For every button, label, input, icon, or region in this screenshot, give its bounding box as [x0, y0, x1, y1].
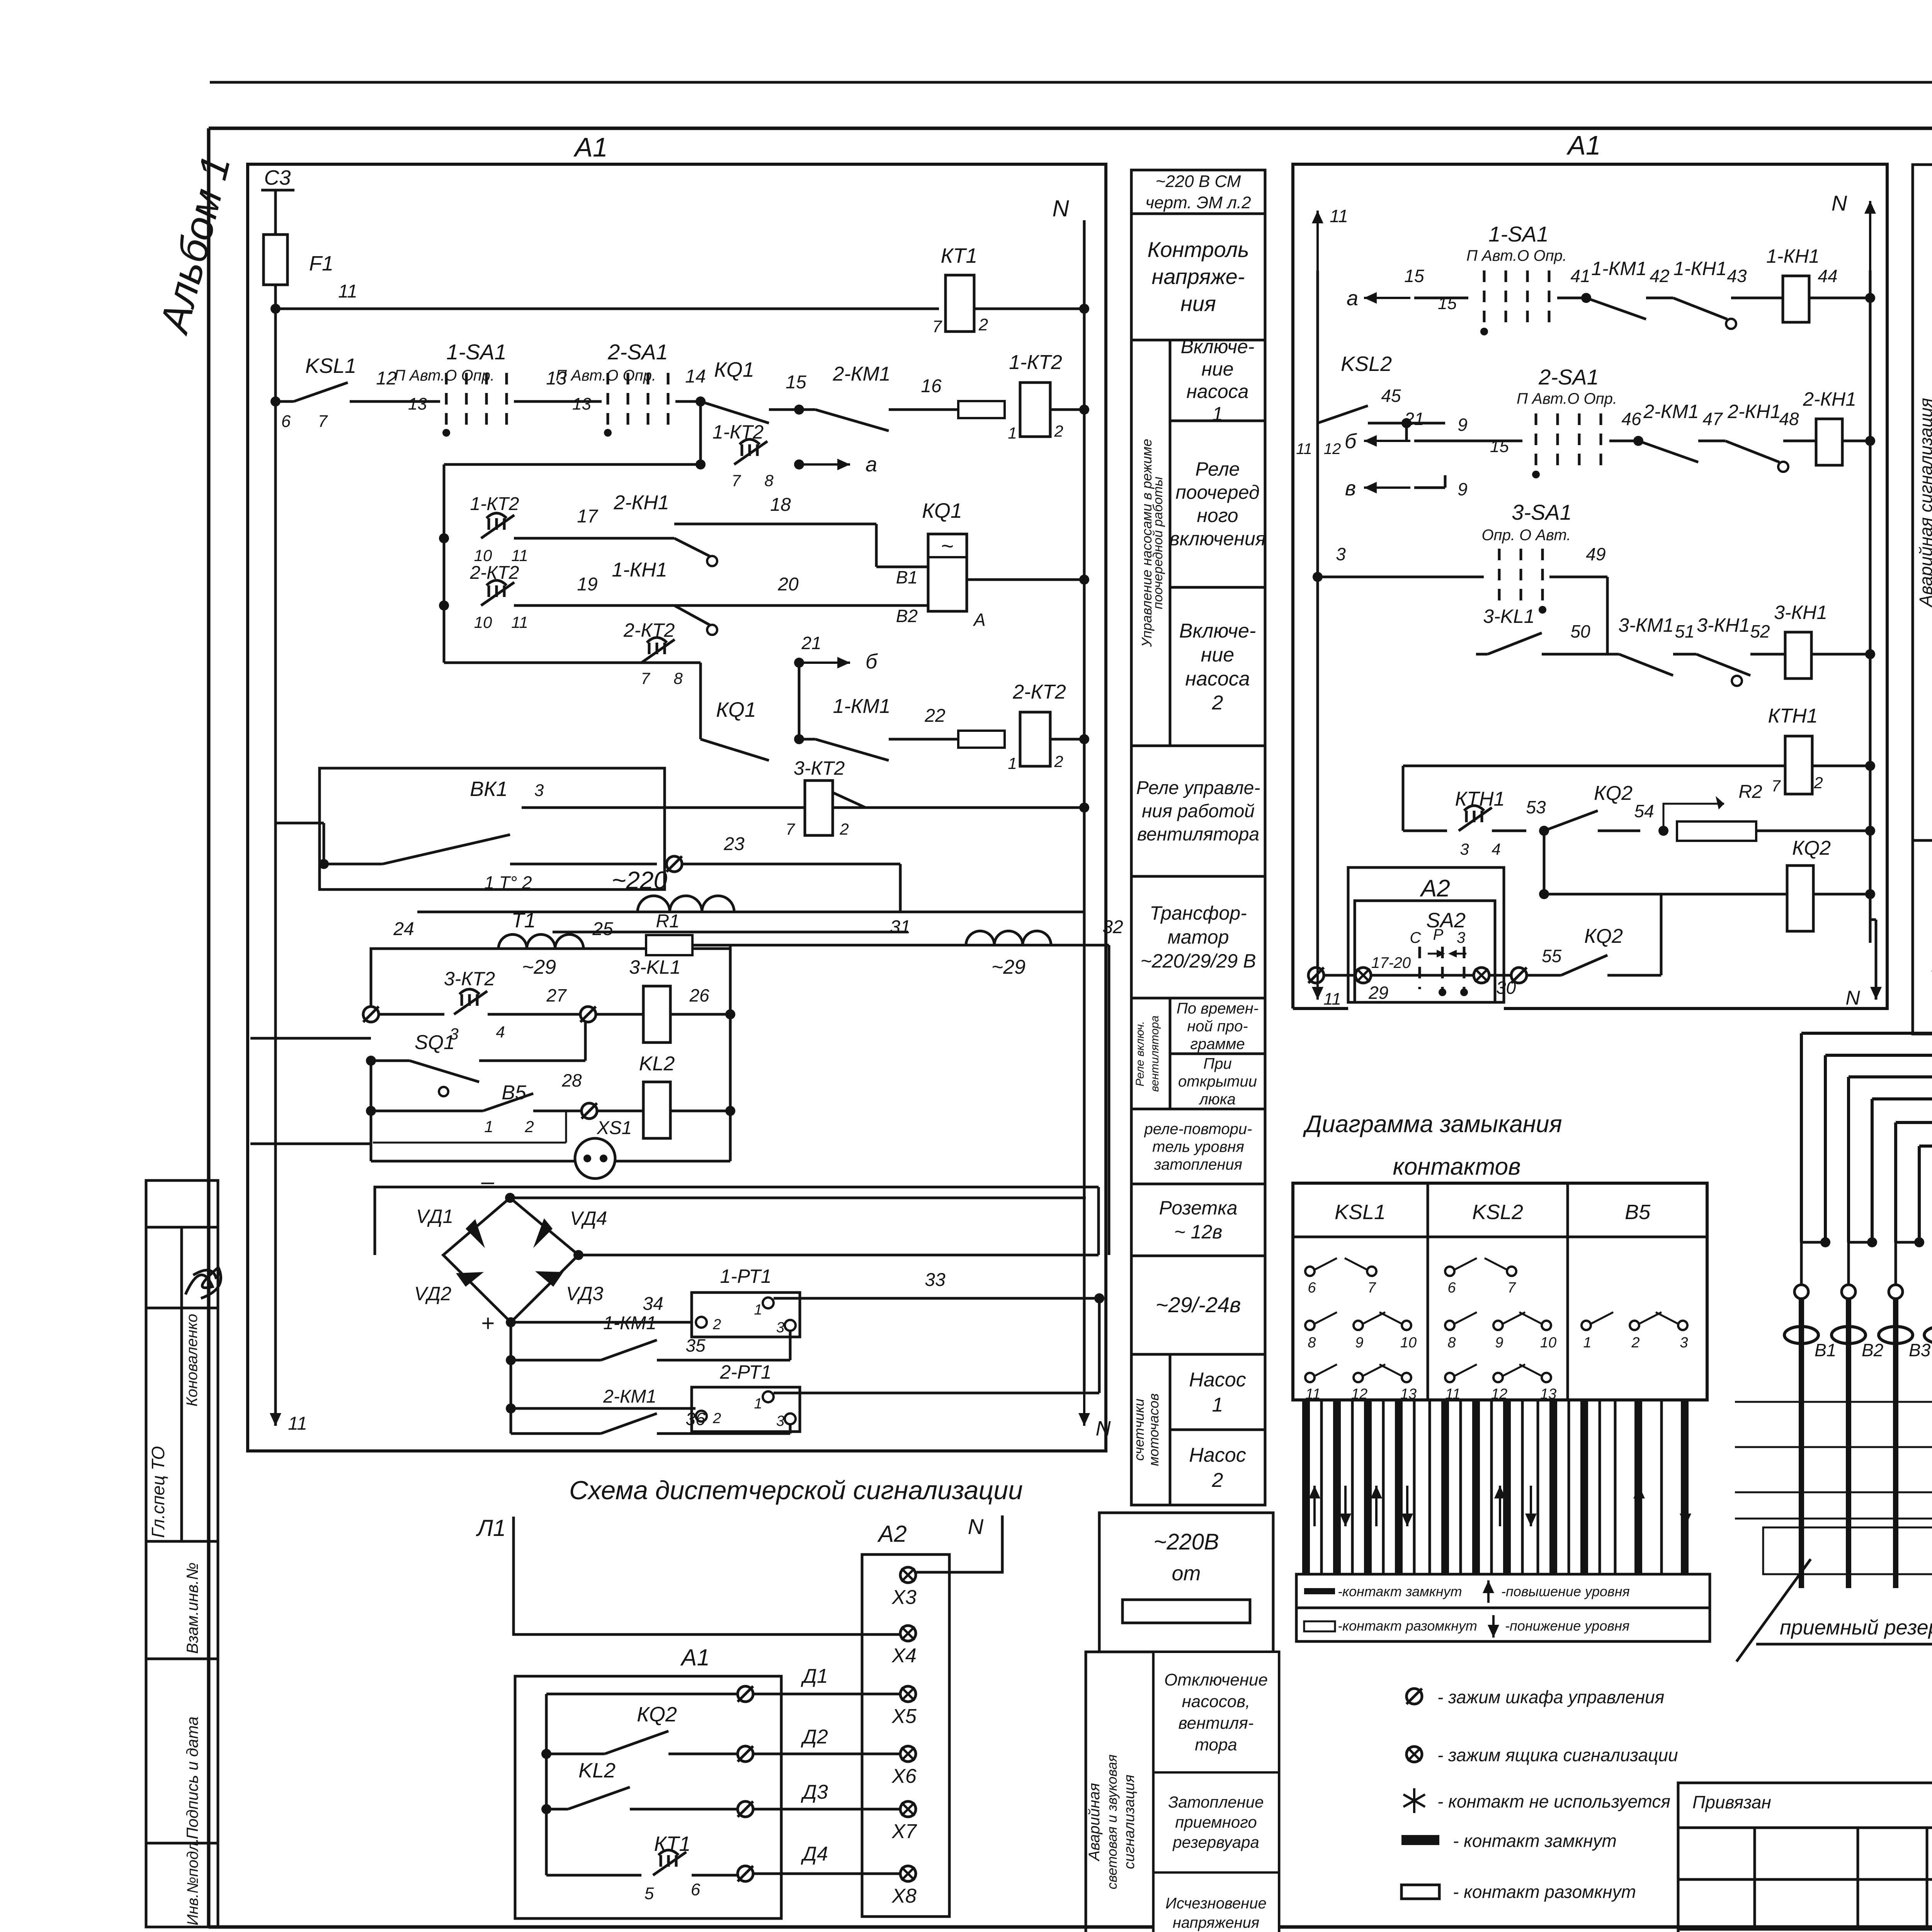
- svg-text:26: 26: [689, 985, 709, 1005]
- svg-text:1: 1: [754, 1302, 762, 1318]
- svg-text:46: 46: [1621, 409, 1641, 429]
- svg-text:~220/29/29 В: ~220/29/29 В: [1141, 950, 1256, 972]
- svg-text:KL2: KL2: [639, 1053, 675, 1075]
- row55 term: [1511, 968, 1527, 983]
- bundle jumpers: [1801, 1241, 1825, 1244]
- svg-text:52: 52: [1750, 621, 1770, 641]
- svg-text:вентилятора: вентилятора: [1137, 824, 1259, 845]
- svg-text:Подпись и дата: Подпись и дата: [183, 1716, 201, 1839]
- mid KTH1 contact: [1403, 830, 1447, 832]
- svg-text:А1: А1: [573, 132, 608, 162]
- svg-text:5: 5: [645, 1884, 654, 1903]
- svg-text:7: 7: [318, 412, 328, 431]
- node B5: [366, 1106, 376, 1116]
- relay coil 3-KT2: [805, 781, 833, 835]
- svg-text:11: 11: [1323, 990, 1341, 1009]
- svg-text:С3: С3: [264, 166, 291, 189]
- relay coil 3-KL1: [596, 1013, 643, 1016]
- svg-text:реле-повтори-: реле-повтори-: [1144, 1121, 1252, 1138]
- contact BK1: [324, 863, 383, 866]
- contact KT1 dispatch: [546, 1874, 641, 1877]
- dispatch bus: [545, 1694, 548, 1875]
- svg-text:Привязан: Привязан: [1692, 1792, 1771, 1812]
- block A1 left outline: [248, 164, 1106, 1451]
- svg-text:N: N: [1096, 1417, 1111, 1440]
- svg-text:47: 47: [1702, 409, 1723, 429]
- svg-text:1-РТ1: 1-РТ1: [720, 1265, 771, 1287]
- svg-text:КQ2: КQ2: [1584, 925, 1623, 947]
- svg-text:Л1: Л1: [476, 1515, 506, 1541]
- rail2: [1735, 1446, 1932, 1448]
- node 17: [439, 533, 449, 543]
- svg-text:11: 11: [511, 613, 528, 631]
- svg-text:10: 10: [474, 613, 492, 631]
- svg-text:Контроль: Контроль: [1147, 237, 1249, 262]
- svg-text:в: в: [1345, 477, 1356, 500]
- privyazan box: [1678, 1783, 1932, 1932]
- col1 box rele upr vent: [1131, 746, 1265, 876]
- svg-text:~220: ~220: [612, 866, 668, 894]
- L1 wire: [514, 1517, 900, 1634]
- svg-text:ние: ние: [1201, 358, 1233, 380]
- svg-text:1: 1: [1008, 424, 1017, 442]
- mid node3: [1313, 572, 1323, 582]
- mid drop 45: [1405, 423, 1408, 441]
- svg-text:~220В: ~220В: [1153, 1529, 1219, 1554]
- svg-text:3: 3: [1336, 544, 1346, 564]
- svg-text:10: 10: [474, 546, 492, 565]
- svg-text:23: 23: [723, 834, 745, 854]
- line N left: [1083, 220, 1086, 1391]
- node 21: [794, 658, 804, 668]
- svg-text:П Авт.О Опр.: П Авт.О Опр.: [556, 367, 656, 384]
- svg-text:Включе-: Включе-: [1179, 620, 1256, 642]
- relay coil KT1: [946, 275, 974, 332]
- svg-text:Затопление: Затопление: [1168, 1793, 1264, 1811]
- svg-text:Д2: Д2: [801, 1726, 828, 1748]
- level sensor B3: [1889, 1285, 1903, 1299]
- table b5 row: [1582, 1321, 1591, 1330]
- mid 2-SA1: [1535, 413, 1537, 471]
- svg-text:2: 2: [524, 1117, 534, 1136]
- wire 34: [511, 1321, 692, 1324]
- resistor row22: [958, 731, 1005, 748]
- svg-text:Схема диспетчерской сигн: Схема диспетчерской сигнализации: [569, 1476, 1023, 1505]
- svg-text:Розетка: Розетка: [1159, 1197, 1237, 1219]
- node 19: [439, 600, 449, 611]
- svg-text:12: 12: [376, 368, 396, 389]
- svg-text:П Авт.О Опр.: П Авт.О Опр.: [1466, 247, 1567, 264]
- relay 1-PT1: [692, 1293, 800, 1337]
- svg-text:включения: включения: [1170, 528, 1266, 549]
- svg-text:35: 35: [685, 1335, 706, 1355]
- contact 1-KT2 timed a: [742, 444, 757, 456]
- tall box avar signal: [1086, 1652, 1279, 1932]
- svg-text:1: 1: [1008, 754, 1017, 772]
- resistor row2: [958, 401, 1005, 418]
- relay coil KQ1: [928, 534, 967, 611]
- box A1 dispatch: [515, 1676, 781, 1918]
- svg-text:насосов,: насосов,: [1182, 1692, 1250, 1711]
- wire 11: [276, 308, 939, 310]
- table k1 row3: [1305, 1373, 1315, 1382]
- row55 left: [1308, 968, 1324, 983]
- svg-text:11: 11: [511, 546, 528, 565]
- svg-text:А1: А1: [680, 1645, 709, 1670]
- svg-text:1-КТ2: 1-КТ2: [470, 494, 519, 514]
- svg-text:2-РТ1: 2-РТ1: [719, 1361, 771, 1383]
- bundle wire 1: [1801, 869, 1932, 1033]
- col2 box rele zapomin: [1913, 840, 1932, 1034]
- SA2 dashes: [1418, 947, 1421, 989]
- wire 17: [514, 537, 657, 540]
- svg-text:грамме: грамме: [1190, 1036, 1245, 1053]
- mid 1-KN1 coil: [1731, 297, 1783, 299]
- svg-text:7: 7: [932, 317, 942, 336]
- svg-text:ной про-: ной про-: [1187, 1018, 1248, 1035]
- col1 box nasos1: [1170, 1354, 1265, 1430]
- svg-text:49: 49: [1586, 544, 1605, 564]
- svg-text:3-КМ1: 3-КМ1: [1618, 614, 1673, 636]
- wire to N row2: [1050, 408, 1084, 411]
- svg-text:1-КН1: 1-КН1: [1766, 245, 1820, 267]
- mid node41: [1557, 297, 1586, 299]
- terminal X5: [900, 1686, 916, 1702]
- svg-text:Т1: Т1: [511, 909, 536, 932]
- svg-text:КQ1: КQ1: [716, 698, 756, 721]
- loop bottom: [371, 1160, 575, 1163]
- svg-text:2-SA1: 2-SA1: [607, 340, 668, 364]
- svg-text:8: 8: [673, 669, 683, 687]
- bridge right wire: [573, 1250, 583, 1260]
- bridge top line: [375, 1187, 1099, 1255]
- svg-text:2: 2: [1212, 1469, 1223, 1492]
- svg-text:2-КН1: 2-КН1: [613, 492, 669, 514]
- svg-text:2-КН1: 2-КН1: [1727, 401, 1781, 422]
- wire 12: [350, 400, 440, 403]
- wire KQ1 to N: [967, 578, 1084, 581]
- svg-text:SA2: SA2: [1426, 909, 1466, 932]
- svg-text:- контакт замкнут: - контакт замкнут: [1453, 1831, 1617, 1851]
- svg-text:53: 53: [1526, 797, 1546, 817]
- switch 2-SA1: [607, 373, 609, 431]
- tall box r3: [1153, 1872, 1279, 1932]
- relay coil 1-KT2 row2: [1020, 383, 1050, 437]
- svg-text:3: 3: [776, 1413, 784, 1429]
- svg-text:- зажим ящика сигнализаци: - зажим ящика сигнализации: [1437, 1745, 1678, 1765]
- svg-text:–: –: [481, 1168, 494, 1194]
- svg-text:15: 15: [786, 372, 806, 393]
- node 8a: [794, 459, 804, 469]
- col2 strip avar: [1913, 165, 1932, 840]
- svg-text:вентилятора: вентилятора: [1148, 1015, 1161, 1092]
- svg-text:Аварийная: Аварийная: [1086, 1783, 1103, 1861]
- svg-text:6: 6: [691, 1880, 701, 1899]
- svg-text:Гл.спец ТО: Гл.спец ТО: [148, 1446, 168, 1538]
- svg-text:2-КМ1: 2-КМ1: [603, 1386, 656, 1407]
- svg-text:N: N: [1832, 191, 1847, 215]
- svg-text:11: 11: [1330, 206, 1348, 226]
- svg-text:А2: А2: [877, 1521, 906, 1547]
- svg-text:Коноваленко: Коноваленко: [184, 1314, 201, 1406]
- mid arrow v: [1364, 486, 1410, 489]
- fuse F1: [264, 235, 287, 285]
- svg-text:41: 41: [1570, 266, 1590, 286]
- table k2 row2: [1445, 1321, 1454, 1330]
- relay 2-PT1: [692, 1387, 800, 1432]
- svg-text:17: 17: [577, 506, 599, 527]
- svg-text:11: 11: [338, 281, 357, 302]
- mid N bottom: [1875, 920, 1878, 1000]
- svg-text:34: 34: [643, 1294, 663, 1314]
- switch 1-SA1: [445, 373, 448, 431]
- svg-text:15: 15: [1438, 294, 1457, 313]
- row55 KQ2: [1561, 955, 1607, 975]
- wire drop b: [798, 663, 801, 739]
- svg-text:Насос: Насос: [1189, 1444, 1246, 1466]
- svg-text:3: 3: [1460, 840, 1469, 858]
- svg-text:насоса: насоса: [1187, 381, 1249, 402]
- svg-text:3: 3: [776, 1320, 784, 1336]
- svg-text:- зажим шкафа управления: - зажим шкафа управления: [1437, 1687, 1664, 1707]
- svg-text:9: 9: [1495, 1335, 1503, 1351]
- svg-text:KSL2: KSL2: [1341, 352, 1392, 376]
- svg-text:моточасов: моточасов: [1146, 1393, 1162, 1466]
- contact KSL1: [276, 400, 294, 403]
- mid bus arrow bottom: [1316, 935, 1319, 1000]
- svg-text:3: 3: [534, 781, 544, 800]
- col1 box po vrem: [1170, 998, 1265, 1054]
- svg-text:КТН1: КТН1: [1768, 705, 1818, 727]
- legend zazhim1: [1406, 1689, 1422, 1704]
- svg-text:б: б: [866, 650, 878, 673]
- bus vertical inner: [443, 464, 446, 663]
- row55 x1: [1355, 968, 1371, 983]
- svg-text:1-КН1: 1-КН1: [612, 559, 667, 581]
- svg-text:1: 1: [1212, 1394, 1223, 1416]
- svg-text:31: 31: [890, 917, 910, 937]
- svg-text:KSL2: KSL2: [1472, 1201, 1523, 1224]
- svg-text:13: 13: [408, 395, 427, 413]
- svg-text:а: а: [1347, 287, 1358, 310]
- svg-text:Отключение: Отключение: [1164, 1670, 1268, 1689]
- svg-text:24: 24: [393, 919, 414, 939]
- svg-text:Реле управле-: Реле управле-: [1136, 778, 1260, 798]
- svg-text:А1: А1: [1566, 130, 1601, 160]
- bundle wire 6: [1919, 939, 1932, 1146]
- svg-text:открытии: открытии: [1178, 1073, 1257, 1090]
- svg-text:SQ1: SQ1: [415, 1031, 455, 1054]
- svg-text:2: 2: [713, 1316, 721, 1333]
- svg-text:R1: R1: [656, 911, 679, 932]
- relay coil KL2: [597, 1110, 643, 1112]
- svg-text:2-КМ1: 2-КМ1: [1643, 401, 1699, 422]
- wire 3-KT2 row: [522, 806, 805, 809]
- legend kontakt razomknut: [1401, 1885, 1439, 1899]
- box SA2: [1355, 901, 1495, 1002]
- mid 2-KN1 coil: [1783, 440, 1816, 442]
- bundle wire 3: [1849, 869, 1932, 1077]
- col1 box transformator: [1131, 876, 1265, 998]
- bundle wire 2: [1825, 869, 1932, 1055]
- wire D1: [546, 1693, 737, 1696]
- wire to N row22: [1050, 738, 1084, 741]
- svg-text:50: 50: [1570, 621, 1590, 641]
- svg-text:32: 32: [1102, 917, 1123, 937]
- wire 20: [674, 604, 928, 607]
- col1 strip upravlenie: [1131, 340, 1170, 746]
- svg-text:КQ2: КQ2: [1594, 782, 1633, 804]
- svg-text:KSL1: KSL1: [1335, 1201, 1386, 1224]
- svg-text:XS1: XS1: [597, 1118, 632, 1138]
- loop subbox: [373, 1142, 566, 1144]
- bridge diamond: [443, 1198, 578, 1322]
- mid 3-KN1 contact: [1696, 654, 1750, 675]
- terminal X7: [900, 1801, 916, 1817]
- svg-text:X7: X7: [891, 1820, 917, 1843]
- svg-text:3: 3: [1680, 1335, 1688, 1351]
- svg-text:КТ1: КТ1: [654, 1832, 691, 1855]
- contact 2-KN1: [657, 537, 674, 540]
- svg-text:VД1: VД1: [416, 1206, 453, 1227]
- arrow a: [802, 463, 850, 466]
- contact B5: [371, 1110, 483, 1112]
- svg-text:2-КТ2: 2-КТ2: [1012, 681, 1066, 703]
- terminal 23: [667, 856, 682, 872]
- mid 3-KM1: [1607, 653, 1619, 656]
- table frame: [1293, 1183, 1707, 1400]
- svg-text:44: 44: [1818, 266, 1837, 286]
- svg-text:2: 2: [1813, 774, 1823, 792]
- svg-text:А: А: [973, 610, 986, 630]
- svg-text:2-КТ2: 2-КТ2: [470, 563, 519, 583]
- level sensor B1: [1794, 1285, 1808, 1299]
- diagram bars: [1302, 1400, 1310, 1574]
- node 14: [675, 400, 701, 403]
- svg-text:22: 22: [924, 706, 945, 726]
- bundle wire 5: [1896, 869, 1932, 1122]
- svg-text:В2: В2: [1862, 1340, 1883, 1360]
- svg-text:7: 7: [1507, 1280, 1516, 1296]
- box 220V ot: [1099, 1513, 1273, 1652]
- svg-text:4: 4: [496, 1023, 505, 1041]
- bars frame lines: [1293, 1399, 1707, 1401]
- contact 2-KM1 row2: [799, 408, 815, 411]
- col1 strip rele vkl vent: [1131, 998, 1170, 1109]
- svg-text:КQ2: КQ2: [1792, 837, 1831, 859]
- svg-text:- контакт не используется: - контакт не используется: [1437, 1791, 1670, 1811]
- svg-text:Диаграмма замыкания: Диаграмма замыкания: [1303, 1111, 1562, 1138]
- svg-text:В5: В5: [1625, 1201, 1651, 1224]
- svg-text:15: 15: [1404, 266, 1424, 286]
- svg-text:3-SA1: 3-SA1: [1512, 500, 1572, 524]
- wire D3: [738, 1801, 753, 1817]
- svg-text:3-КН1: 3-КН1: [1697, 614, 1750, 636]
- svg-text:3-KL1: 3-KL1: [1483, 605, 1534, 627]
- box A2 dispatch: [862, 1554, 949, 1917]
- bar arrows: [1313, 1486, 1316, 1526]
- svg-text:П Авт.О Опр.: П Авт.О Опр.: [394, 367, 495, 384]
- svg-text:10: 10: [1400, 1335, 1417, 1351]
- svg-text:X6: X6: [891, 1765, 917, 1787]
- svg-text:6: 6: [281, 412, 291, 431]
- svg-text:КQ1: КQ1: [714, 358, 754, 381]
- bundle wire 4: [1872, 869, 1932, 1099]
- svg-text:11: 11: [1296, 440, 1312, 457]
- contact KL2 dispatch: [541, 1804, 551, 1814]
- svg-text:X8: X8: [891, 1885, 917, 1907]
- svg-text:6: 6: [1447, 1280, 1456, 1296]
- svg-text:2: 2: [839, 820, 849, 838]
- svg-text:10: 10: [1540, 1335, 1556, 1351]
- svg-text:вентиля-: вентиля-: [1179, 1714, 1254, 1733]
- svg-text:54: 54: [1634, 801, 1654, 821]
- svg-text:А2: А2: [1419, 875, 1450, 902]
- svg-text:Аварийная сигнализация: Аварийная сигнализация: [1916, 398, 1932, 608]
- svg-text:7: 7: [731, 471, 741, 490]
- svg-text:1: 1: [484, 1117, 493, 1136]
- svg-text:напряжения: напряжения: [1173, 1914, 1259, 1931]
- terminal 28: [582, 1103, 597, 1119]
- mid 2-KN1 contact: [1725, 441, 1779, 462]
- svg-text:N: N: [1845, 987, 1860, 1009]
- svg-text:Д3: Д3: [801, 1781, 828, 1803]
- col1 box 220V: [1131, 170, 1265, 214]
- svg-text:2: 2: [1054, 752, 1063, 770]
- stamp signature scribble: [185, 1267, 221, 1298]
- terminal X3: [900, 1567, 916, 1583]
- contact KQ1 row22: [701, 739, 769, 760]
- svg-text:контактов: контактов: [1393, 1153, 1520, 1180]
- svg-text:8: 8: [1308, 1335, 1316, 1351]
- svg-text:VД3: VД3: [566, 1283, 604, 1304]
- tall box r1: [1153, 1652, 1279, 1772]
- wire from left 2960: [250, 1143, 371, 1145]
- wire 27: [488, 1013, 580, 1016]
- bundle feeders: [1800, 1242, 1803, 1285]
- mid node54: [1658, 826, 1668, 836]
- wire 13a: [514, 400, 602, 403]
- svg-text:7: 7: [641, 669, 650, 687]
- svg-text:1-SA1: 1-SA1: [446, 340, 507, 364]
- left stamp strip: [146, 1180, 218, 1927]
- svg-text:Р: Р: [1433, 926, 1444, 943]
- svg-text:33: 33: [925, 1270, 946, 1290]
- svg-text:2: 2: [1054, 422, 1063, 440]
- svg-text:световая и звуковая: световая и звуковая: [1104, 1754, 1120, 1889]
- secondary loop: [371, 949, 730, 1012]
- svg-text:2-КМ1: 2-КМ1: [832, 363, 890, 385]
- svg-text:36: 36: [685, 1409, 706, 1429]
- svg-text:2-КТ2: 2-КТ2: [623, 619, 675, 641]
- svg-text:~220 В СМ: ~220 В СМ: [1156, 172, 1241, 191]
- mid 1-SA1: [1483, 270, 1486, 328]
- col1 box rozetka: [1131, 1184, 1265, 1256]
- wire 23 bend: [899, 864, 902, 912]
- svg-text:11: 11: [288, 1413, 307, 1434]
- svg-text:-контакт разомкнут: -контакт разомкнут: [1338, 1618, 1477, 1634]
- svg-text:Реле включ.: Реле включ.: [1134, 1021, 1146, 1086]
- svg-text:Опр. О Авт.: Опр. О Авт.: [1482, 527, 1571, 544]
- svg-text:7: 7: [786, 820, 795, 838]
- legend r1: [1304, 1588, 1335, 1594]
- reservoir box: [1763, 1527, 1932, 1574]
- svg-text:29: 29: [1368, 983, 1388, 1003]
- svg-text:3-КТ2: 3-КТ2: [794, 757, 845, 779]
- box A2: [1348, 867, 1504, 1002]
- svg-text:-контакт замкнут: -контакт замкнут: [1338, 1583, 1462, 1599]
- legend r2: [1304, 1621, 1335, 1631]
